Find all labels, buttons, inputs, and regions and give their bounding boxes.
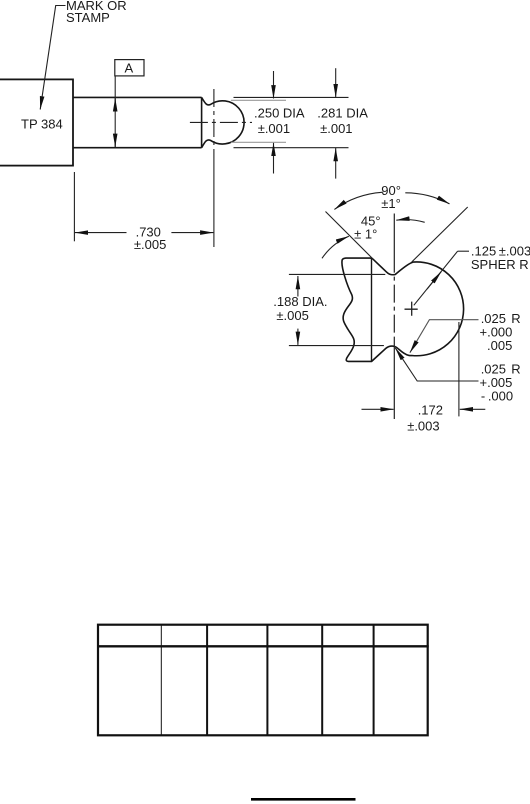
45 deg dimension arc left arrow [322,236,349,258]
svg-text:.250 DIA: .250 DIA [254,106,305,121]
bottom footer line [251,798,356,801]
body block TP 384 [0,79,73,165]
centerline horizontal view1 [187,121,252,123]
svg-text:±.003: ±.003 [407,419,439,434]
datum A stem [114,76,116,147]
svg-text:SPHER R: SPHER R [471,257,529,272]
dim .172 arrows [362,408,394,410]
detail centerline [393,214,395,257]
svg-text:STAMP: STAMP [66,10,110,25]
svg-text:± 1°: ± 1° [354,226,377,241]
centerline vertical view1 [213,89,215,158]
leader MARK OR [40,6,65,110]
90 deg dimension arc left [334,192,383,209]
diameter double arrow on shaft [114,98,116,111]
shaft tip neck and sphere [202,97,244,147]
svg-text:±1°: ±1° [381,196,401,211]
svg-text:±.001: ±.001 [320,121,352,136]
leader .025 R lower [395,348,478,381]
leader .025 R upper [410,320,479,353]
45 deg dimension arrow at centerline [396,220,424,223]
svg-text:.005: .005 [487,338,512,353]
table column line 5 [373,625,375,735]
sphere center crosshair [405,302,418,316]
dim .188 arrows [297,276,299,297]
svg-text:.281 DIA: .281 DIA [317,106,368,121]
svg-text:TP 384: TP 384 [21,116,63,131]
right 45 flank line [412,207,468,262]
dim .281 arrows [335,68,337,97]
face edge line in detail [371,258,373,361]
table column line 2 [206,625,208,735]
table header separator [97,645,429,647]
table column line 3 [266,625,268,735]
svg-text:±.005: ±.005 [134,237,166,252]
dim .730 arrows [75,232,127,234]
leader .125 SPHER R [414,251,458,305]
datum flag A box [115,60,144,76]
svg-text:A: A [125,61,134,76]
extension line .730 right (sphere center) [213,158,215,247]
svg-text:.172: .172 [418,403,443,418]
90 deg dimension arc right [405,193,449,204]
svg-text:- .000: - .000 [481,389,513,404]
detail outline with break line, neck and sphere [342,258,464,361]
left 45 flank line [326,212,373,259]
table column line 4 [321,625,323,735]
table outer border [98,625,428,736]
dim .250 arrows [273,71,275,98]
svg-text:±.005: ±.005 [276,308,308,323]
grey extension lines .250 (sphere tangents) [231,99,286,101]
shaft outline [73,97,202,147]
extension line .730 left [73,172,75,241]
svg-text:.188 DIA.: .188 DIA. [273,294,327,309]
dim .172 extension right [458,322,460,416]
svg-text:±.001: ±.001 [258,121,290,136]
table column line 1 (thin) [160,625,162,735]
extension lines .281 (shaft tangents) [234,96,349,98]
dim .188 extension lines [289,273,385,275]
